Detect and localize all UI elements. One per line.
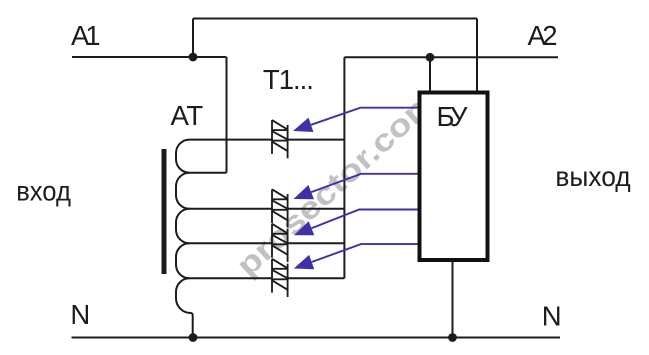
svg-text:N: N	[70, 299, 90, 330]
wire A2 output	[344, 56, 558, 58]
gate line 3	[312, 210, 418, 229]
gate arrowhead 4	[294, 255, 314, 269]
winding arc 4	[176, 243, 190, 278]
transformer core	[162, 149, 167, 274]
wire BU to N	[452, 260, 454, 338]
triac VS4	[272, 259, 288, 297]
svg-text:AT: AT	[171, 100, 204, 131]
gate arrowhead 2	[294, 185, 315, 199]
junction node N right	[448, 333, 457, 342]
wire row1 left	[190, 139, 273, 141]
svg-text:вход: вход	[16, 175, 71, 206]
wire row3 left	[190, 242, 273, 244]
wire row2 right	[288, 208, 345, 210]
triac VS2	[272, 189, 288, 227]
triac VS1	[272, 120, 288, 158]
gate arrowhead 1	[293, 118, 313, 132]
gate line 2	[311, 174, 417, 192]
junction node N left	[189, 333, 198, 342]
wire top bus	[193, 18, 477, 20]
triac VS3	[272, 224, 288, 262]
wire row4 left	[190, 277, 273, 279]
wire row1 right	[288, 139, 345, 141]
svg-text:T1...: T1...	[263, 64, 314, 95]
gate arrowhead 3	[294, 221, 315, 235]
svg-text:БУ: БУ	[437, 101, 469, 132]
winding arc 1	[176, 140, 190, 173]
wire drop from top bus to BU box	[476, 19, 478, 93]
wire tap L2	[190, 172, 227, 174]
wire drop from A2 node to BU box	[429, 57, 431, 92]
wire A1 input	[72, 56, 227, 58]
wire row3 right	[288, 242, 345, 244]
wire N bus	[72, 337, 561, 339]
BU control unit box U1	[420, 93, 488, 261]
wire row2 left	[190, 208, 273, 210]
gate line 4	[312, 244, 418, 262]
winding arc 3	[176, 209, 190, 244]
wire right rail	[343, 57, 345, 278]
wire feed drop to winding tap L2	[226, 57, 228, 173]
junction node A1	[189, 53, 198, 62]
wire row4 right	[288, 277, 345, 279]
junction node A2	[426, 53, 435, 62]
svg-text:A1: A1	[71, 20, 101, 51]
wire drop from top bus to A1 node	[192, 19, 194, 58]
winding bottom hook to N	[176, 278, 193, 337]
gate line 1	[311, 108, 418, 125]
svg-text:выход: выход	[555, 161, 630, 192]
winding arc 2	[176, 173, 190, 209]
svg-text:A2: A2	[528, 20, 558, 51]
svg-text:N: N	[542, 300, 562, 331]
